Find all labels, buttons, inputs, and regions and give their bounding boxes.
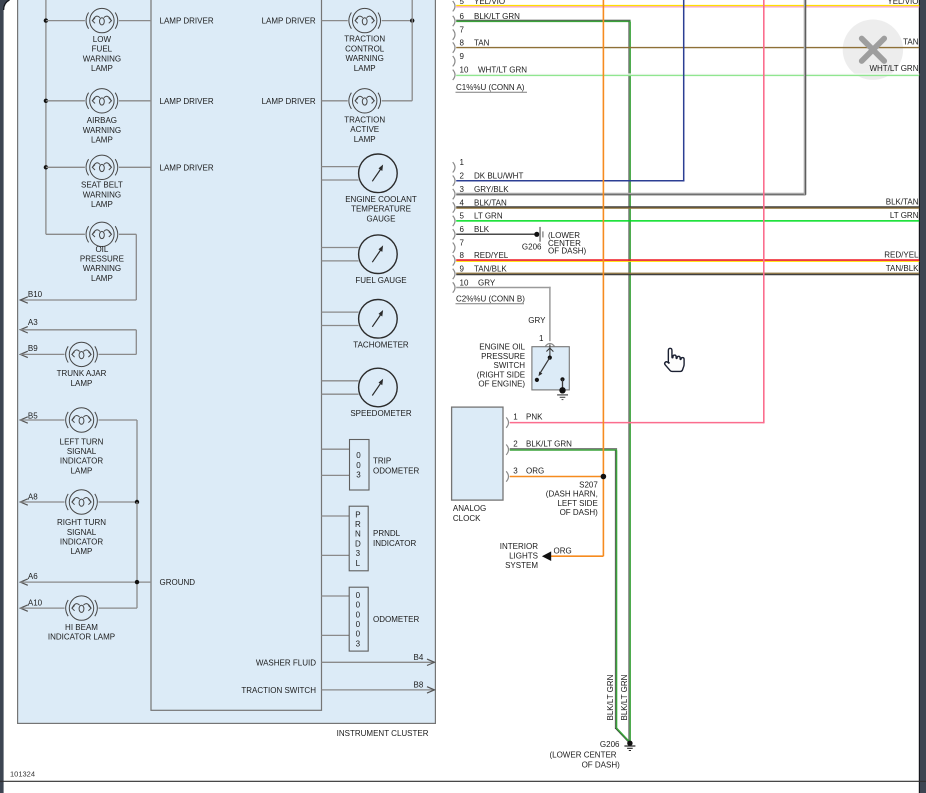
wire engine coolant temperature gauge stubs <box>322 166 359 168</box>
svg-text:3: 3 <box>356 549 361 558</box>
svg-text:TAN/BLK: TAN/BLK <box>886 264 919 273</box>
ground G206 (lower center of dash) <box>627 741 632 746</box>
node splice S207 <box>601 474 607 480</box>
wire PNK clock pin 1 <box>510 422 765 424</box>
svg-text:ORG: ORG <box>526 467 544 476</box>
wire traction switch <box>322 689 435 691</box>
svg-text:HI BEAM: HI BEAM <box>65 623 98 632</box>
lamp AIRBAG WARNING LAMP <box>86 89 118 113</box>
svg-text:LAMP DRIVER: LAMP DRIVER <box>262 97 316 106</box>
connector C2 pin 10 <box>453 282 455 292</box>
wire traction control lamp row <box>322 20 348 22</box>
svg-text:A3: A3 <box>28 318 38 327</box>
svg-text:4: 4 <box>460 198 465 207</box>
svg-text:3: 3 <box>460 185 465 194</box>
svg-text:WHT/LT GRN: WHT/LT GRN <box>869 64 918 73</box>
svg-text:SIGNAL: SIGNAL <box>67 447 97 456</box>
svg-text:WARNING: WARNING <box>346 54 384 63</box>
node junction right turn ground <box>135 500 139 504</box>
wire BLK/LT GRN clock vertical <box>614 450 616 728</box>
svg-text:1: 1 <box>513 413 518 422</box>
wire ORG to interior lights <box>551 555 604 557</box>
svg-text:0: 0 <box>356 610 361 619</box>
svg-text:0: 0 <box>356 461 361 470</box>
svg-text:FUEL GAUGE: FUEL GAUGE <box>355 276 406 285</box>
wire airbag lamp row <box>46 100 85 102</box>
svg-text:OIL: OIL <box>95 245 108 254</box>
svg-text:DK BLU/WHT: DK BLU/WHT <box>474 172 523 181</box>
arrow B10 <box>20 297 28 303</box>
svg-text:B8: B8 <box>414 681 424 690</box>
wire prndl indicator stubs <box>322 515 350 517</box>
switch contacts <box>549 345 551 357</box>
lamp LOW FUEL WARNING LAMP <box>86 8 118 32</box>
arrow A10 <box>20 605 28 611</box>
svg-text:TAN: TAN <box>474 38 490 47</box>
svg-text:SPEEDOMETER: SPEEDOMETER <box>350 409 412 418</box>
svg-text:OF DASH): OF DASH) <box>548 247 587 256</box>
connector C2 pin 9 <box>453 269 455 279</box>
svg-text:5: 5 <box>460 212 465 221</box>
svg-text:AIRBAG: AIRBAG <box>87 116 117 125</box>
arrow B5 <box>20 417 28 423</box>
svg-text:ANALOG: ANALOG <box>453 504 486 513</box>
node junction airbag <box>44 99 48 103</box>
wire B5 to left turn lamp <box>20 419 64 421</box>
svg-text:0: 0 <box>356 591 361 600</box>
wire B9 to trunk ajar lamp <box>20 353 64 355</box>
svg-text:ODOMETER: ODOMETER <box>373 615 419 624</box>
svg-text:GROUND: GROUND <box>160 578 196 587</box>
svg-text:BLK/LT GRN: BLK/LT GRN <box>606 674 615 720</box>
svg-text:OF ENGINE): OF ENGINE) <box>478 380 525 389</box>
svg-text:LOW: LOW <box>93 35 112 44</box>
svg-text:0: 0 <box>356 620 361 629</box>
svg-text:101324: 101324 <box>10 769 35 778</box>
wire DK BLU/WHT vertical <box>683 0 685 181</box>
svg-text:8: 8 <box>460 38 465 47</box>
lamp TRACTION CONTROL WARNING LAMP <box>349 8 381 32</box>
connector clock pin 1 <box>506 417 508 427</box>
svg-text:TRUNK AJAR: TRUNK AJAR <box>57 369 107 378</box>
svg-text:INDICATOR: INDICATOR <box>373 539 416 548</box>
svg-text:1: 1 <box>460 158 465 167</box>
switch ENGINE OIL PRESSURE SWITCH box <box>532 347 569 390</box>
gauge speedometer <box>359 368 398 407</box>
svg-text:LEFT SIDE: LEFT SIDE <box>557 499 597 508</box>
ground stud G206 (pin 6) <box>534 232 539 237</box>
wire GRY/BLK vertical <box>803 0 805 195</box>
wire PNK vertical <box>763 0 765 423</box>
close button X <box>862 39 885 62</box>
wire fuel gauge stubs <box>322 247 359 249</box>
lamp HI BEAM INDICATOR LAMP <box>66 596 98 620</box>
wire DK BLU/WHT pin 2 <box>456 180 684 182</box>
wire GRY pin 10 <box>456 287 550 289</box>
wire TAN/BLK pin 9 <box>456 272 919 274</box>
svg-text:LAMP: LAMP <box>91 64 113 73</box>
svg-text:LAMP: LAMP <box>91 274 113 283</box>
svg-text:OF DASH): OF DASH) <box>582 761 621 770</box>
svg-text:B10: B10 <box>28 290 43 299</box>
wire left lamp feed bus <box>45 0 47 234</box>
svg-text:RIGHT TURN: RIGHT TURN <box>57 518 106 527</box>
wire BLK/LT GRN clock pin 2 <box>510 448 617 450</box>
wire A10 to hi beam lamp <box>20 607 64 609</box>
svg-text:WARNING: WARNING <box>83 264 121 273</box>
connector C2 pin 5 <box>453 216 455 226</box>
svg-text:2: 2 <box>460 172 465 181</box>
svg-text:C2%%U (CONN B): C2%%U (CONN B) <box>456 294 525 303</box>
svg-text:LAMP DRIVER: LAMP DRIVER <box>160 97 214 106</box>
svg-text:BLK/LT GRN: BLK/LT GRN <box>526 440 572 449</box>
right scrollbar <box>919 0 926 793</box>
wire GRY/BLK pin 3 <box>456 192 806 194</box>
svg-text:PRNDL: PRNDL <box>373 529 401 538</box>
wire RED/YEL pin 8 <box>456 259 919 261</box>
svg-text:R: R <box>355 520 361 529</box>
mouse cursor <box>665 348 684 371</box>
box odometer <box>349 587 368 651</box>
svg-text:RED/YEL: RED/YEL <box>474 251 509 260</box>
svg-text:OF DASH): OF DASH) <box>560 508 599 517</box>
wire A6 ground <box>20 581 151 583</box>
arrow A6 <box>20 579 28 585</box>
connector C2 pin 4 <box>453 202 455 212</box>
svg-text:TEMPERATURE: TEMPERATURE <box>351 205 411 214</box>
svg-text:0: 0 <box>356 630 361 639</box>
arrow interior lights <box>542 551 551 561</box>
svg-text:A10: A10 <box>28 599 43 608</box>
svg-text:WARNING: WARNING <box>83 126 121 135</box>
svg-text:B9: B9 <box>28 344 38 353</box>
connector C1 pin 7 <box>453 29 455 39</box>
connector C1 pin 9 <box>453 56 455 66</box>
lamp OIL PRESSURE WARNING LAMP <box>86 222 118 246</box>
svg-text:SWITCH: SWITCH <box>494 361 526 370</box>
svg-text:GRY/BLK: GRY/BLK <box>474 185 509 194</box>
svg-text:BLK/TAN: BLK/TAN <box>886 197 919 206</box>
arrow B8 <box>427 687 435 693</box>
svg-text:TRIP: TRIP <box>373 457 391 466</box>
wire traction vertical <box>411 0 413 101</box>
wire hi beam lamp to junction <box>99 607 138 609</box>
svg-text:LAMP: LAMP <box>91 200 113 209</box>
svg-text:G206: G206 <box>600 740 620 749</box>
svg-text:D: D <box>355 539 361 548</box>
svg-text:BLK/TAN: BLK/TAN <box>474 198 507 207</box>
svg-text:7: 7 <box>460 239 465 248</box>
svg-text:PRESSURE: PRESSURE <box>481 352 525 361</box>
gauge tachometer <box>359 300 398 339</box>
svg-text:10: 10 <box>460 278 469 287</box>
wire low fuel lamp row <box>46 20 85 22</box>
wire ground bus vertical <box>136 502 138 608</box>
wire right turn lamp to junction <box>99 501 138 503</box>
svg-text:ENGINE OIL: ENGINE OIL <box>479 343 525 352</box>
svg-text:TAN: TAN <box>903 38 919 47</box>
wire switch to ground <box>562 379 564 388</box>
left window edge <box>0 0 10 793</box>
svg-text:LAMP DRIVER: LAMP DRIVER <box>160 17 214 26</box>
node junction low fuel <box>44 18 48 22</box>
svg-text:LAMP: LAMP <box>71 547 93 556</box>
svg-text:CONTROL: CONTROL <box>345 44 385 53</box>
wire TAN pin 8 <box>456 47 919 49</box>
lamp TRACTION ACTIVE LAMP <box>349 89 381 113</box>
svg-text:LAMP DRIVER: LAMP DRIVER <box>262 17 316 26</box>
arrow A3 <box>20 327 28 333</box>
svg-text:6: 6 <box>460 12 465 21</box>
svg-text:(RIGHT SIDE: (RIGHT SIDE <box>477 370 525 379</box>
svg-text:YEL/VIO: YEL/VIO <box>887 0 918 6</box>
lamp TRUNK AJAR LAMP <box>66 342 98 366</box>
wire WHT/LT GRN pin 10 <box>456 73 919 75</box>
box trip odometer <box>350 440 370 491</box>
bottom separator <box>0 780 926 782</box>
svg-text:ORG: ORG <box>554 547 572 556</box>
svg-text:P: P <box>355 510 360 519</box>
connector C2 pin 6 <box>453 229 455 239</box>
svg-text:FUEL: FUEL <box>92 45 113 54</box>
svg-text:INTERIOR: INTERIOR <box>500 542 538 551</box>
svg-text:LAMP: LAMP <box>91 136 113 145</box>
svg-text:RED/YEL: RED/YEL <box>884 250 919 259</box>
svg-text:3: 3 <box>513 467 518 476</box>
svg-text:7: 7 <box>460 25 465 34</box>
svg-text:9: 9 <box>460 52 465 61</box>
node junction traction <box>410 18 414 22</box>
svg-text:LT GRN: LT GRN <box>474 212 503 221</box>
lamp SEAT BELT WARNING LAMP <box>86 155 118 179</box>
svg-text:ODOMETER: ODOMETER <box>373 466 419 475</box>
svg-text:3: 3 <box>356 470 361 479</box>
connector C1 pin 10 <box>453 70 455 80</box>
svg-text:INSTRUMENT CLUSTER: INSTRUMENT CLUSTER <box>337 729 429 738</box>
connector C1 pin 8 <box>453 42 455 52</box>
wire A8 to right turn lamp <box>20 501 64 503</box>
svg-text:ACTIVE: ACTIVE <box>350 125 379 134</box>
connector C2 pin 1 <box>453 162 455 172</box>
svg-text:TRACTION SWITCH: TRACTION SWITCH <box>241 686 316 695</box>
wire left turn lamp to ground junction <box>99 419 138 421</box>
svg-text:9: 9 <box>460 265 465 274</box>
svg-text:6: 6 <box>460 225 465 234</box>
svg-text:0: 0 <box>356 451 361 460</box>
svg-text:(LOWER CENTER: (LOWER CENTER <box>549 750 616 759</box>
svg-text:BLK/LT GRN: BLK/LT GRN <box>474 12 520 21</box>
svg-text:WARNING: WARNING <box>83 190 121 199</box>
svg-text:TACHOMETER: TACHOMETER <box>353 341 409 350</box>
svg-text:LIGHTS: LIGHTS <box>509 552 538 561</box>
svg-text:8: 8 <box>460 251 465 260</box>
svg-text:TRACTION: TRACTION <box>344 35 385 44</box>
svg-text:N: N <box>355 530 361 539</box>
svg-text:3: 3 <box>356 639 361 648</box>
connector C2 pin 7 <box>453 243 455 253</box>
gauge fuel gauge <box>359 235 398 274</box>
wire YEL/VIO pin 5 <box>456 5 919 7</box>
lamp LEFT TURN SIGNAL INDICATOR LAMP <box>66 408 98 432</box>
svg-text:WASHER FLUID: WASHER FLUID <box>256 658 316 667</box>
wire traction active lamp row <box>322 100 348 102</box>
wire LT GRN pin 5 <box>456 220 919 222</box>
svg-text:L: L <box>356 559 361 568</box>
svg-text:10: 10 <box>460 66 469 75</box>
instrument cluster outer panel <box>18 0 436 723</box>
svg-text:PRESSURE: PRESSURE <box>80 255 124 264</box>
svg-text:2: 2 <box>513 440 518 449</box>
svg-text:SEAT BELT: SEAT BELT <box>81 181 123 190</box>
svg-text:0: 0 <box>356 601 361 610</box>
connector C1 pin 5 <box>453 1 455 11</box>
connector C2 pin 8 <box>453 255 455 265</box>
svg-text:B4: B4 <box>414 653 424 662</box>
node junction seat belt <box>44 165 48 169</box>
svg-text:ENGINE COOLANT: ENGINE COOLANT <box>345 195 417 204</box>
svg-text:BLK: BLK <box>474 225 490 234</box>
connector C2 pin 2 <box>453 176 455 186</box>
wire speedometer stubs <box>322 380 359 382</box>
svg-text:WARNING: WARNING <box>83 54 121 63</box>
wire seat belt lamp row <box>46 166 85 168</box>
svg-text:WHT/LT GRN: WHT/LT GRN <box>478 66 527 75</box>
svg-text:G206: G206 <box>522 242 542 251</box>
svg-text:S207: S207 <box>579 480 598 489</box>
svg-text:LAMP: LAMP <box>354 135 376 144</box>
svg-text:SYSTEM: SYSTEM <box>505 561 538 570</box>
svg-text:BLK/LT GRN: BLK/LT GRN <box>620 674 629 720</box>
wire BLK pin 6 <box>456 233 534 235</box>
wire washer fluid <box>322 661 435 663</box>
arrow B4 <box>427 659 435 665</box>
svg-text:LT GRN: LT GRN <box>890 211 919 220</box>
box ANALOG CLOCK <box>452 407 503 500</box>
wire tachometer stubs <box>322 311 359 313</box>
svg-text:GRY: GRY <box>528 316 546 325</box>
box prndl indicator <box>349 506 368 571</box>
svg-text:PNK: PNK <box>526 413 543 422</box>
svg-text:C1%%U (CONN A): C1%%U (CONN A) <box>456 83 525 92</box>
wire ORG clock pin 3 <box>510 476 601 478</box>
svg-text:LAMP: LAMP <box>71 466 93 475</box>
wire BLK/TAN pin 4 <box>456 206 919 208</box>
lamp RIGHT TURN SIGNAL INDICATOR LAMP <box>66 490 98 514</box>
svg-text:INDICATOR: INDICATOR <box>60 457 103 466</box>
svg-text:TRACTION: TRACTION <box>344 116 385 125</box>
svg-text:A6: A6 <box>28 572 38 581</box>
svg-text:CLOCK: CLOCK <box>453 514 481 523</box>
svg-text:TAN/BLK: TAN/BLK <box>474 265 507 274</box>
wire ORG vertical <box>602 0 604 556</box>
wire BLK/LT GRN pin 6 vertical <box>628 22 630 741</box>
connector C1 pin 6 <box>453 16 455 26</box>
arrow A8 <box>20 499 28 505</box>
close button circle <box>843 20 903 80</box>
ground (oil pressure switch) <box>559 387 565 393</box>
svg-text:LAMP DRIVER: LAMP DRIVER <box>160 163 214 172</box>
instrument cluster inner box <box>151 0 322 710</box>
svg-text:GRY: GRY <box>478 278 496 287</box>
wire BLK/LT GRN diagonal to ground <box>615 728 628 741</box>
connector C2 pin 3 <box>453 189 455 199</box>
connector clock pin 3 <box>506 471 508 481</box>
wire A3 to trunk ajar lamp <box>20 329 136 331</box>
svg-text:LAMP: LAMP <box>71 379 93 388</box>
svg-text:LEFT TURN: LEFT TURN <box>60 437 104 446</box>
svg-text:GAUGE: GAUGE <box>367 214 396 223</box>
svg-text:INDICATOR LAMP: INDICATOR LAMP <box>48 633 115 642</box>
svg-text:INDICATOR: INDICATOR <box>60 538 103 547</box>
wire odometer stubs <box>322 595 350 597</box>
svg-text:LAMP: LAMP <box>354 64 376 73</box>
svg-text:A8: A8 <box>28 493 38 502</box>
wire trip odometer stubs <box>322 448 350 450</box>
svg-text:(DASH HARN,: (DASH HARN, <box>546 490 598 499</box>
svg-text:SIGNAL: SIGNAL <box>67 528 97 537</box>
connector clock pin 2 <box>506 445 508 455</box>
arrow B9 <box>20 351 28 357</box>
wire oil pressure lamp to B10 <box>119 233 136 235</box>
wire BLK/LT GRN pin 6 horizontal <box>456 19 630 21</box>
gauge engine coolant temperature gauge <box>359 154 398 193</box>
svg-text:1: 1 <box>539 334 544 343</box>
node junction A6 <box>135 580 139 584</box>
